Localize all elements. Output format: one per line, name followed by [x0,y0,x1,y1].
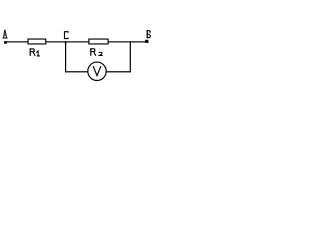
label C [65,32,69,39]
resistor R2 body [89,39,108,44]
voltmeter circle [88,62,106,80]
wire R1 to R2 through node C [46,41,89,42]
wire vertical right branch down [130,41,131,72]
label R1 [30,48,40,56]
wire vertical from C down [65,41,66,72]
label B [147,30,151,38]
wire bottom right from voltmeter [106,71,131,72]
label A [3,30,8,39]
junction at node C [65,41,67,43]
wire bottom left to voltmeter [65,71,88,72]
wire A to R1 [6,41,29,42]
node B terminal dot [145,40,148,43]
voltmeter V glyph [93,66,101,76]
resistor R1 body [28,39,46,44]
wire R2 to B [108,41,148,42]
node A terminal dot [4,41,7,44]
label R2 [90,48,103,56]
